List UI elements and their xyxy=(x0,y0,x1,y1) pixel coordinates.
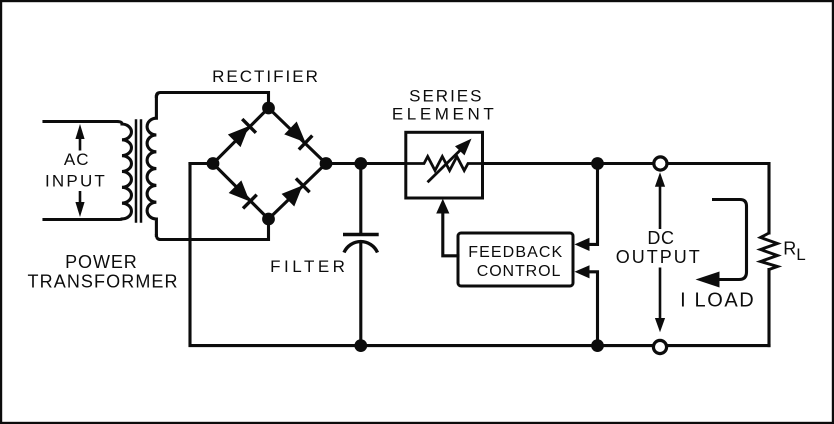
wire capacitor upper lead xyxy=(359,164,362,234)
wire right side below load resistor xyxy=(767,270,770,346)
series element box U1 xyxy=(406,132,483,198)
junction dot bridge bottom node xyxy=(262,213,275,226)
svg-text:AC: AC xyxy=(64,150,90,169)
DC output up arrow xyxy=(655,172,665,229)
diode CR4 lower-right xyxy=(281,178,309,206)
transformer T1 primary winding xyxy=(117,122,131,220)
wire AC input top lead xyxy=(44,120,117,123)
wire feedback tap from top rail xyxy=(588,164,598,245)
wire bridge left node to left drop xyxy=(190,162,213,165)
diode CR1 upper-left xyxy=(228,119,256,147)
svg-text:I LOAD: I LOAD xyxy=(680,290,755,312)
junction dot bridge top node xyxy=(262,102,275,115)
output terminal circle top xyxy=(654,157,667,170)
svg-text:FILTER: FILTER xyxy=(270,257,348,276)
svg-text:FEEDBACK: FEEDBACK xyxy=(468,244,563,261)
load resistor RL zigzag xyxy=(761,233,778,270)
junction dot filter top xyxy=(354,157,367,170)
wire AC input bottom lead xyxy=(44,218,117,221)
AC input down arrow xyxy=(75,191,84,217)
wire bridge right node to series element xyxy=(326,162,406,165)
wire secondary top to bridge top node xyxy=(156,93,268,109)
wire secondary bottom to bridge bottom node xyxy=(156,219,268,240)
arrowhead into series element bottom xyxy=(436,199,449,214)
DC output down arrow xyxy=(655,268,665,333)
svg-text:ELEMENT: ELEMENT xyxy=(392,104,498,123)
svg-text:SERIES: SERIES xyxy=(409,86,483,105)
svg-text:INPUT: INPUT xyxy=(45,172,107,191)
wire feedback tap from bottom rail xyxy=(588,272,598,346)
junction dot filter bottom xyxy=(354,339,367,352)
wire top rail series element to right side xyxy=(483,164,770,234)
junction dot feedback tap top xyxy=(591,157,604,170)
arrowhead into feedback box right bottom xyxy=(575,265,590,278)
feedback control box U2 xyxy=(458,233,573,286)
I LOAD hook arrow xyxy=(696,200,747,288)
diode CR2 upper-right xyxy=(284,121,312,149)
wire feedback control to series element xyxy=(443,213,458,256)
transformer T1 core bar right xyxy=(140,121,143,222)
AC input up arrow xyxy=(75,124,84,151)
capacitor C1 plate xyxy=(343,233,379,236)
variable resistor inside series element xyxy=(406,157,483,171)
arrowhead into feedback box right top xyxy=(575,238,590,251)
svg-text:POWER: POWER xyxy=(65,252,138,272)
transformer T1 core bar left xyxy=(135,121,138,222)
wire capacitor lower lead xyxy=(359,242,362,346)
svg-text:OUTPUT: OUTPUT xyxy=(616,247,702,267)
junction dot bridge right node xyxy=(320,157,333,170)
capacitor C1 curved plate xyxy=(344,242,378,253)
wire bridge diagonal left-bottom xyxy=(213,164,269,220)
wire bridge diagonal bottom-right xyxy=(269,164,327,220)
wire left drop and bottom rail xyxy=(190,164,769,346)
junction dot bridge left node xyxy=(207,157,220,170)
svg-text:DC: DC xyxy=(647,228,674,248)
variable resistor arrow xyxy=(428,139,472,183)
output terminal circle bottom xyxy=(653,340,666,353)
transformer T1 secondary winding xyxy=(147,97,156,236)
wire bridge diagonal left-top xyxy=(213,108,269,164)
svg-text:CONTROL: CONTROL xyxy=(477,263,562,280)
wire bridge diagonal top-right xyxy=(269,108,327,164)
svg-text:TRANSFORMER: TRANSFORMER xyxy=(28,272,179,292)
diode CR3 lower-left xyxy=(229,180,257,208)
junction dot feedback tap bottom xyxy=(591,339,604,352)
svg-text:RECTIFIER: RECTIFIER xyxy=(212,67,320,86)
